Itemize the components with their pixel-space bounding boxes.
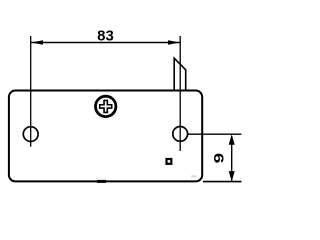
hole center extension line [188, 133, 242, 135]
bottom arrowhead 9 [229, 171, 235, 182]
svg-text:9: 9 [210, 153, 226, 163]
right mounting hole [173, 126, 188, 141]
bottom nub [97, 180, 106, 183]
svg-text:83: 83 [97, 27, 114, 44]
left mounting hole [23, 127, 38, 142]
screw head [96, 96, 116, 116]
left extension line [30, 36, 32, 147]
faint mark [191, 175, 196, 177]
right extension line [179, 36, 181, 151]
top arrowhead 9 [229, 134, 235, 145]
bottom extension line [203, 181, 241, 183]
terminal tab [174, 58, 186, 90]
body outline [9, 91, 202, 182]
dimension line 83 [31, 42, 180, 44]
dimension line 9 [231, 136, 233, 181]
square hole [165, 158, 172, 165]
right arrowhead [168, 40, 180, 45]
left arrowhead [31, 40, 43, 45]
